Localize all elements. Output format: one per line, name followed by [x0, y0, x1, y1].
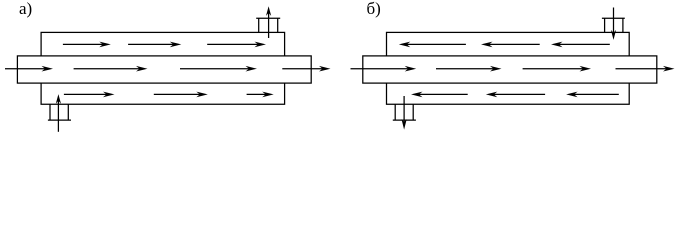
annulus upper flow arrow B2 (left)	[481, 42, 540, 48]
tube flow arrow A2	[74, 66, 148, 72]
flow arrow into nozzle A (up)	[56, 94, 61, 132]
tube outlet arrow B	[616, 66, 675, 72]
annulus upper flow arrow A2 (right)	[128, 42, 181, 48]
flow arrow out of nozzle A (up)	[266, 6, 271, 38]
nozzle outlet B (bottom left): branch pipe	[393, 104, 416, 120]
tube inlet arrow A	[5, 66, 53, 72]
annulus lower flow arrow A1 (right)	[64, 92, 115, 98]
inner tube B	[363, 56, 657, 83]
shell B (outer casing)	[387, 32, 630, 104]
flow arrow out of nozzle B (down)	[402, 96, 407, 130]
svg-text:а): а)	[19, 0, 32, 18]
tube flow arrow B2	[436, 66, 502, 72]
annulus lower flow arrow B3 (left)	[566, 92, 619, 98]
annulus lower flow arrow A3 (right)	[247, 92, 274, 98]
tube flow arrow A3	[180, 66, 257, 72]
nozzle inlet B (top right): branch pipe	[602, 18, 625, 32]
tube outlet arrow A	[282, 66, 330, 72]
annulus upper flow arrow A3 (right)	[207, 42, 266, 48]
tube flow arrow B3	[523, 66, 591, 72]
annulus lower flow arrow B1 (left)	[411, 92, 468, 98]
label б)	[367, 0, 381, 18]
annulus upper flow arrow B3 (left)	[551, 42, 610, 48]
annulus upper flow arrow A1 (right)	[63, 42, 111, 48]
annulus lower flow arrow B2 (left)	[486, 92, 545, 98]
nozzle inlet A (bottom left): branch pipe	[48, 104, 71, 120]
shell A (outer casing)	[41, 32, 285, 104]
inner tube A	[17, 56, 311, 83]
nozzle outlet A (top right): branch pipe	[256, 18, 280, 32]
annulus lower flow arrow A2 (right)	[154, 92, 208, 98]
label а)	[19, 0, 32, 18]
flow arrow into nozzle B (down)	[611, 8, 616, 40]
svg-text:б): б)	[367, 0, 381, 18]
annulus upper flow arrow B1 (left)	[399, 42, 466, 48]
tube inlet arrow B	[351, 66, 417, 72]
